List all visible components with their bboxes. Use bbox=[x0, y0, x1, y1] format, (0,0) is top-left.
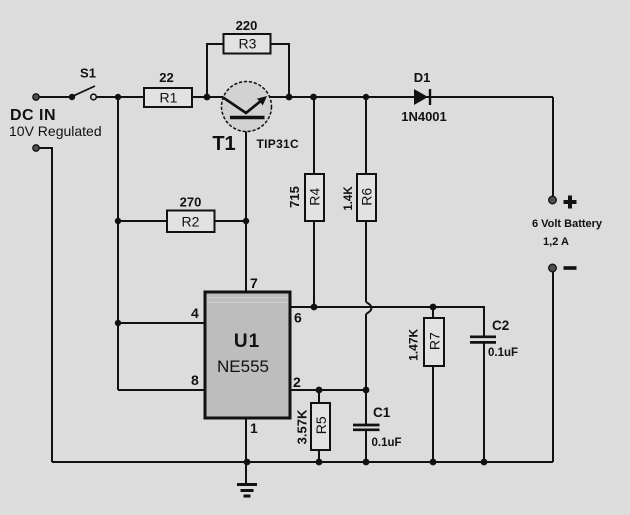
svg-text:4: 4 bbox=[191, 305, 199, 321]
svg-text:S1: S1 bbox=[80, 66, 96, 81]
svg-text:1.4K: 1.4K bbox=[343, 186, 355, 211]
svg-text:22: 22 bbox=[159, 70, 173, 85]
svg-text:U1: U1 bbox=[234, 331, 260, 352]
svg-text:R7: R7 bbox=[426, 332, 442, 350]
svg-text:R3: R3 bbox=[239, 36, 257, 52]
svg-text:1,2 A: 1,2 A bbox=[543, 236, 569, 248]
svg-text:R6: R6 bbox=[359, 188, 375, 206]
svg-text:C2: C2 bbox=[492, 318, 509, 333]
svg-text:3.57K: 3.57K bbox=[294, 409, 309, 444]
svg-text:T1: T1 bbox=[212, 133, 235, 155]
svg-text:NE555: NE555 bbox=[217, 357, 269, 376]
svg-text:715: 715 bbox=[287, 186, 302, 208]
svg-text:DC IN: DC IN bbox=[10, 107, 56, 124]
svg-text:0.1uF: 0.1uF bbox=[372, 437, 402, 449]
svg-text:8: 8 bbox=[191, 372, 199, 388]
svg-text:2: 2 bbox=[293, 374, 301, 390]
svg-text:1.47K: 1.47K bbox=[407, 328, 421, 360]
svg-text:10V Regulated: 10V Regulated bbox=[9, 123, 102, 139]
svg-text:270: 270 bbox=[180, 195, 202, 210]
svg-text:R5: R5 bbox=[313, 416, 329, 434]
svg-text:1: 1 bbox=[250, 420, 258, 436]
svg-text:7: 7 bbox=[250, 275, 258, 291]
svg-text:1N4001: 1N4001 bbox=[401, 109, 447, 124]
svg-text:D1: D1 bbox=[414, 70, 431, 85]
svg-text:R1: R1 bbox=[160, 90, 178, 106]
svg-text:R2: R2 bbox=[182, 214, 200, 230]
svg-text:TIP31C: TIP31C bbox=[257, 137, 300, 151]
svg-text:0.1uF: 0.1uF bbox=[488, 347, 518, 359]
svg-text:6 Volt Battery: 6 Volt Battery bbox=[532, 218, 603, 230]
svg-text:C1: C1 bbox=[373, 405, 391, 420]
svg-text:220: 220 bbox=[236, 18, 258, 33]
svg-text:6: 6 bbox=[294, 310, 302, 326]
svg-text:R4: R4 bbox=[307, 188, 323, 206]
